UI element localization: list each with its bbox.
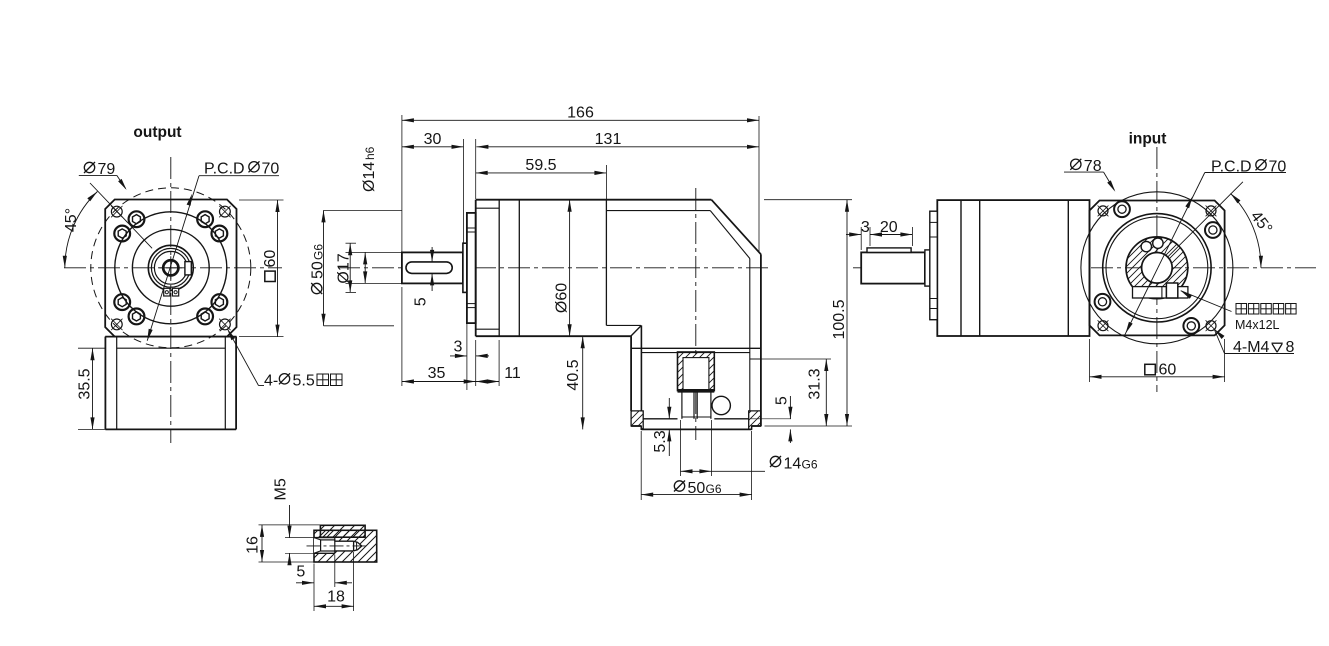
svg-text:35: 35 [428,365,446,382]
svg-text:18: 18 [327,589,345,606]
svg-text:Ø60: Ø60 [553,283,570,313]
svg-text:11: 11 [504,365,521,382]
svg-text:M4x12L: M4x12L [1235,318,1280,332]
svg-text:G6: G6 [706,482,722,496]
svg-text:5: 5 [774,396,791,405]
svg-text:5: 5 [413,297,430,306]
svg-text:5.3: 5.3 [652,430,669,452]
svg-text:20: 20 [880,219,898,236]
svg-text:G6: G6 [312,244,326,260]
svg-text:Ø14: Ø14 [361,162,378,192]
svg-text:h6: h6 [363,146,377,160]
svg-text:3: 3 [861,219,870,236]
svg-text:14: 14 [784,456,802,473]
svg-text:45°: 45° [63,208,80,232]
svg-text:40.5: 40.5 [565,359,582,390]
svg-text:4-: 4- [264,373,278,390]
svg-text:131: 131 [595,131,622,148]
svg-text:input: input [1129,131,1167,148]
svg-text:3: 3 [454,339,463,356]
svg-text:P.C.D: P.C.D [204,161,245,178]
svg-text:60: 60 [262,250,279,268]
svg-text:G6: G6 [802,458,818,472]
svg-text:output: output [133,124,181,141]
svg-text:100.5: 100.5 [831,299,848,339]
svg-text:16: 16 [245,536,262,554]
svg-text:M5: M5 [273,478,290,500]
svg-text:59.5: 59.5 [525,157,556,174]
svg-text:166: 166 [567,105,594,122]
svg-text:5: 5 [296,564,305,581]
svg-text:60: 60 [1159,362,1177,379]
svg-text:31.3: 31.3 [807,368,824,399]
svg-text:50: 50 [688,480,706,497]
svg-text:70: 70 [262,161,280,178]
svg-text:8: 8 [1286,339,1295,356]
svg-text:4-M4: 4-M4 [1233,339,1270,356]
svg-text:50: 50 [310,261,327,279]
svg-text:30: 30 [424,131,442,148]
svg-text:35.5: 35.5 [77,368,94,399]
svg-text:5.5: 5.5 [293,373,315,390]
svg-text:Ø17: Ø17 [336,253,353,283]
